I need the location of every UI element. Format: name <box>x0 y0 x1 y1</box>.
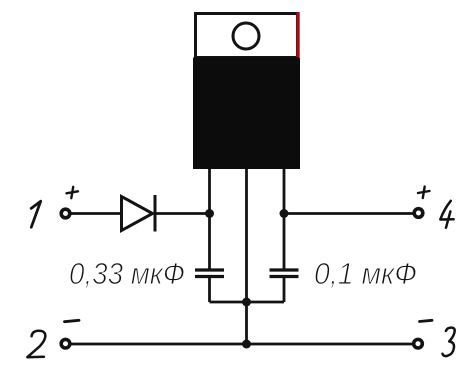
node B junction (pin3 / output) <box>280 209 289 218</box>
terminal 2 <box>61 339 70 348</box>
label 2 <box>27 331 45 357</box>
capacitor C1 bottom plate <box>195 275 224 278</box>
regulator U1 tab red edge <box>296 12 299 57</box>
node A junction (pin1 / input) <box>205 209 214 218</box>
label - at terminal 2 <box>65 320 80 321</box>
capacitor C2 bottom plate <box>270 275 299 278</box>
node D junction (pin2 to bus) <box>242 340 251 349</box>
wire capacitor bottoms connector <box>210 301 285 304</box>
wire diode to node A <box>156 212 210 215</box>
wire node B to terminal 4 <box>284 212 414 215</box>
terminal 4 <box>414 209 423 218</box>
wire pin1 leg <box>208 169 211 269</box>
diode VD1 anode triangle <box>122 197 153 231</box>
label - at terminal 3 <box>420 320 433 321</box>
label 1 <box>31 201 41 227</box>
label + at terminal 1 <box>67 187 79 198</box>
label 3 <box>443 328 455 356</box>
svg-text:0,33 мкФ: 0,33 мкФ <box>69 256 185 291</box>
capacitor C1 top plate <box>195 268 224 271</box>
wire pin2 leg <box>245 169 248 344</box>
wire C2 bottom lead <box>283 278 286 302</box>
label + at terminal 4 <box>418 187 430 199</box>
wire C1 bottom lead <box>208 278 211 302</box>
diode VD1 cathode bar <box>154 195 157 232</box>
regulator U1 mounting tab <box>196 14 298 58</box>
svg-text:0,1 мкФ: 0,1 мкФ <box>314 256 417 291</box>
regulator U1 body <box>193 58 300 170</box>
regulator U1 mounting hole <box>233 23 259 49</box>
wire bottom bus terminal2 to terminal3 <box>70 343 414 346</box>
wire terminal1 to diode <box>70 212 121 215</box>
capacitor C2 top plate <box>270 268 299 271</box>
wire pin3 leg <box>283 169 286 269</box>
label 4 <box>440 201 453 228</box>
terminal 1 <box>61 209 70 218</box>
node C junction (caps to pin2) <box>242 298 251 307</box>
terminal 3 <box>414 339 423 348</box>
